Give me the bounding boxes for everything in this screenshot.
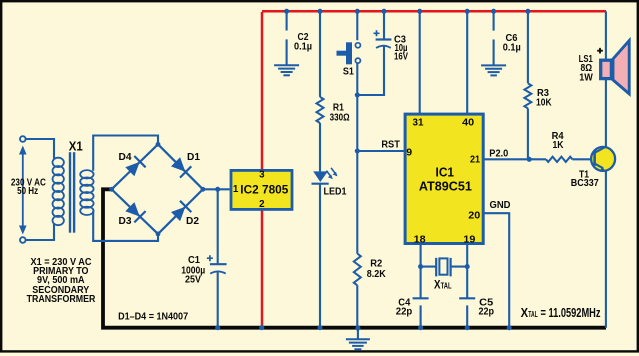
wire rail to S1 [356, 11, 358, 40]
wire IC1 pin19 down [466, 243, 468, 298]
wire secondary bottom to bridge [93, 211, 158, 241]
svg-text:20: 20 [468, 209, 480, 221]
label R2 [367, 258, 386, 281]
svg-text:D3: D3 [119, 215, 132, 227]
label D3 [119, 215, 132, 227]
capacitor C5 [459, 298, 475, 327]
crystal XTAL [421, 258, 468, 277]
junction C3 rail [381, 9, 386, 14]
junction ground rail GND [507, 325, 512, 330]
resistor R4 [546, 157, 572, 162]
resistor R2 [354, 254, 361, 286]
svg-text:21: 21 [470, 154, 480, 166]
svg-text:LED1: LED1 [324, 186, 347, 198]
junction C6 rail [491, 9, 496, 14]
label XTAL [434, 279, 452, 291]
label C4 [396, 296, 413, 317]
C1 plus sign [207, 255, 213, 261]
junction ground rail IC2 [259, 325, 264, 330]
label C1 [181, 254, 205, 285]
ground below C2 [274, 65, 299, 75]
svg-text:D4: D4 [119, 151, 132, 163]
label LED1 [324, 186, 347, 198]
junction R3 rail [525, 9, 530, 14]
wire R3 to P2.0 node [527, 108, 529, 159]
wire rail to R1 [319, 11, 321, 97]
label S1 [343, 66, 354, 78]
wire AC bottom to primary [26, 224, 54, 240]
svg-text:RST: RST [381, 139, 400, 150]
svg-text:31: 31 [413, 117, 424, 129]
svg-text:IC2 7805: IC2 7805 [240, 183, 288, 197]
label D4 [119, 151, 132, 163]
wire LED1 to ground rail [319, 184, 321, 328]
svg-text:P2.0: P2.0 [489, 147, 508, 159]
svg-text:TRANSFORMER: TRANSFORMER [27, 293, 96, 305]
capacitor C4 [413, 298, 429, 327]
wire bridge to IC2 pin1 [203, 188, 230, 190]
IC1 pin 40 label [462, 117, 474, 129]
wire R4 to T1 base [572, 158, 594, 160]
junction ground rail LED [317, 325, 322, 330]
svg-text:2: 2 [259, 199, 265, 210]
label C2 [294, 31, 312, 53]
svg-text:8.2K: 8.2K [367, 268, 386, 280]
junction ground rail C4 [418, 325, 423, 330]
svg-text:D1: D1 [187, 151, 200, 163]
label D1 [187, 151, 200, 163]
junction C2 rail [284, 9, 289, 14]
label T1 BC337 [571, 168, 599, 189]
svg-text:IC1: IC1 [436, 164, 455, 179]
AC voltage arrow [19, 146, 27, 235]
transformer X1 primary winding [53, 158, 64, 226]
svg-text:X: X [521, 305, 529, 320]
note transformer spec [27, 256, 96, 305]
note crystal frequency [521, 305, 601, 320]
bridge rectifier frame [112, 144, 203, 234]
svg-text:9: 9 [406, 146, 412, 158]
ground symbol bottom [346, 328, 370, 349]
IC2 pin 2 label [259, 199, 265, 210]
svg-text:22p: 22p [478, 306, 494, 318]
capacitor C2 [286, 11, 288, 65]
junction P2.0/R3 [527, 157, 532, 162]
diode D3 [125, 202, 145, 222]
wire T1 emitter to ground rail [605, 171, 607, 328]
junction pin40 rail [465, 9, 470, 14]
junction pin31 rail [417, 9, 422, 14]
diode D4 [125, 156, 145, 176]
svg-text:1: 1 [233, 184, 239, 195]
wire S1 junction down [356, 95, 358, 254]
wire rail to LS1 [605, 11, 607, 59]
svg-text:AT89C51: AT89C51 [419, 179, 472, 194]
LED1 [312, 168, 338, 184]
wire S1 to junction [356, 63, 358, 95]
label C3 [394, 33, 408, 62]
LS1 plus sign [597, 48, 603, 54]
junction XTAL pin18 [418, 264, 423, 269]
label D2 [186, 215, 199, 227]
label 230 V AC 50 Hz [11, 178, 46, 197]
capacitor C3 [357, 11, 391, 95]
resistor R3 [524, 83, 531, 108]
resistor R1 [317, 97, 324, 123]
C3 plus sign [374, 30, 380, 36]
IC1 pin 9 label [406, 146, 412, 158]
wire T1 collector to LS1 [605, 80, 607, 148]
svg-text:1K: 1K [553, 139, 564, 151]
ground below C6 [481, 65, 506, 75]
wire rail to R3 [527, 11, 529, 83]
wire RST to IC1 pin9 [357, 150, 404, 152]
IC2 pin 3 label [259, 170, 265, 181]
capacitor C6 [493, 11, 495, 65]
wire R1 to LED1 [319, 123, 321, 171]
label R1 [330, 101, 350, 123]
IC1 pin 19 label [463, 234, 475, 246]
junction ground rail at R2 [355, 326, 360, 331]
IC1 pin 31 label [413, 117, 424, 129]
wire secondary top to bridge [93, 136, 158, 171]
svg-text:25V: 25V [185, 274, 201, 286]
label X1 [69, 139, 83, 154]
junction XTAL pin19 [465, 264, 470, 269]
label GND [490, 199, 511, 211]
junction bridge bottom [156, 232, 161, 237]
svg-text:10K: 10K [536, 96, 552, 108]
wire red vertical to IC2 pin3 [261, 12, 264, 170]
label R3 [536, 87, 552, 109]
IC1 pin 20 label [468, 209, 480, 221]
AC terminal top [20, 136, 26, 142]
junction bridge left [109, 187, 114, 192]
transistor T1 [591, 147, 615, 172]
svg-text:= 11.0592MHz: = 11.0592MHz [541, 305, 601, 320]
label RST [381, 139, 400, 150]
junction S1 rail [355, 9, 360, 14]
junction S1/C3 [355, 92, 360, 97]
switch S1 [337, 42, 361, 64]
svg-text:D1–D4 = 1N4007: D1–D4 = 1N4007 [118, 310, 188, 322]
voltage regulator IC2 7805 [231, 170, 292, 209]
svg-text:0.1µ: 0.1µ [503, 42, 521, 54]
label IC2 7805 [240, 183, 288, 197]
junction ground rail C1 [215, 325, 220, 330]
wire R2 to ground rail [356, 285, 358, 327]
transformer X1 core [69, 152, 76, 233]
svg-text:S1: S1 [343, 66, 354, 78]
IC1 pin 21 label [470, 154, 480, 166]
svg-text:D2: D2 [186, 215, 199, 227]
svg-text:22p: 22p [396, 305, 413, 317]
junction bridge top [156, 142, 161, 147]
svg-text:0.1µ: 0.1µ [294, 41, 312, 53]
AC terminal bottom [20, 237, 26, 243]
label IC1 [436, 164, 455, 179]
svg-text:GND: GND [490, 199, 511, 211]
IC1 pin 18 label [414, 234, 426, 246]
svg-text:1W: 1W [579, 72, 593, 84]
junction R1 rail [317, 9, 322, 14]
svg-text:16V: 16V [394, 51, 408, 63]
svg-text:TAL: TAL [441, 281, 452, 290]
junction C1 top [215, 187, 220, 192]
wire red vertical IC2 pin2 to ground rail [261, 211, 264, 328]
label R4 [552, 130, 564, 151]
speaker LS1 [601, 41, 630, 94]
svg-text:330Ω: 330Ω [330, 112, 350, 124]
wire AC top to primary [26, 139, 54, 159]
svg-text:BC337: BC337 [571, 177, 599, 189]
IC2 pin 1 label [233, 184, 239, 195]
wire IC1 pin21 P2.0 [484, 158, 547, 160]
wire rail to IC1 pin31 [419, 11, 421, 113]
diode D1 [171, 157, 191, 177]
microcontroller IC1 AT89C51 [405, 114, 483, 243]
note diode spec [118, 310, 188, 322]
svg-text:X1: X1 [69, 139, 83, 154]
label C5 [478, 297, 494, 318]
svg-text:TAL: TAL [528, 309, 538, 319]
junction ground rail C5 [465, 325, 470, 330]
transformer X1 secondary winding [80, 170, 93, 215]
capacitor C1 [210, 189, 227, 327]
label C6 [503, 32, 521, 54]
wire +5V rail (red) [262, 10, 606, 13]
label AT89C51 [419, 179, 472, 194]
wire rail to IC1 pin40 [466, 11, 468, 113]
svg-text:3: 3 [259, 170, 265, 181]
svg-text:40: 40 [462, 117, 474, 129]
junction bridge right [201, 187, 206, 192]
diode D2 [171, 201, 191, 221]
svg-text:19: 19 [463, 234, 475, 246]
junction RST [355, 148, 360, 153]
svg-text:50 Hz: 50 Hz [17, 186, 38, 197]
label LS1 [579, 53, 593, 84]
wire IC1 pin20 GND [484, 213, 510, 328]
wire ground rail (black) [103, 189, 606, 327]
label P2.0 [489, 147, 508, 159]
wire IC1 pin18 down [420, 243, 422, 298]
